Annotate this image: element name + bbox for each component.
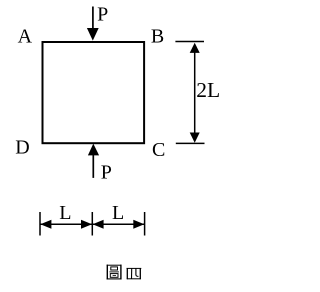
bottom dimension line xyxy=(40,223,145,225)
arrowhead left (at middle tick, from right) xyxy=(93,220,104,229)
2L dimension: bottom extension tick xyxy=(176,142,205,144)
square plate ABCD xyxy=(43,42,145,143)
bottom dimension: middle tick xyxy=(91,212,93,236)
2L dimension: top extension tick xyxy=(175,41,204,43)
caption character 圖 (drawn) xyxy=(107,265,122,280)
svg-text:2L: 2L xyxy=(196,78,220,102)
arrowhead right (at middle tick, from left) xyxy=(81,220,92,229)
2L dimension line xyxy=(194,48,196,137)
arrowhead right (at right tick) xyxy=(133,220,144,229)
svg-text:C: C xyxy=(152,139,165,161)
svg-text:P: P xyxy=(101,162,112,184)
svg-text:A: A xyxy=(18,25,33,47)
caption character 四 (drawn) xyxy=(127,268,142,279)
svg-text:B: B xyxy=(151,25,164,47)
2L dimension arrowhead down xyxy=(190,133,200,143)
svg-text:D: D xyxy=(15,137,29,159)
svg-text:L: L xyxy=(59,202,71,224)
bottom dimension: left tick xyxy=(39,212,41,236)
svg-text:L: L xyxy=(112,202,124,224)
2L dimension arrowhead up xyxy=(190,43,200,53)
top force arrow P (downward) xyxy=(92,7,94,30)
bottom dimension: right tick xyxy=(144,212,146,236)
svg-text:P: P xyxy=(97,3,108,25)
arrowhead left (at left tick) xyxy=(40,220,51,229)
bottom force arrow P (upward) xyxy=(92,154,94,178)
